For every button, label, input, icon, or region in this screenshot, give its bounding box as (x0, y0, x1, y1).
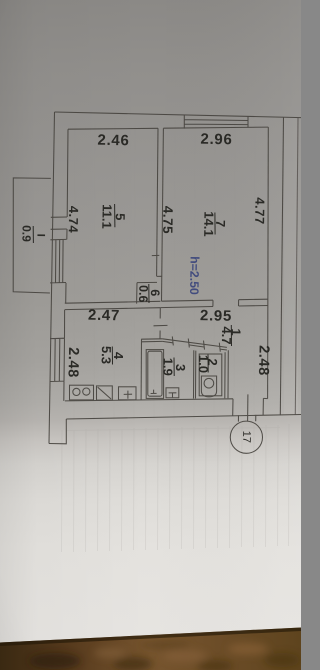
svg-text:2.47: 2.47 (88, 307, 120, 325)
leader line to apartment number (247, 394, 249, 421)
svg-text:4.75: 4.75 (160, 206, 175, 235)
window: room 7 top (184, 115, 248, 129)
bathtub drain (151, 390, 157, 394)
svg-text:1.0: 1.0 (196, 355, 211, 373)
slanted wall upper line (continuous) (162, 339, 227, 348)
kitchen washbasin (119, 387, 137, 400)
svg-text:2.48: 2.48 (65, 347, 82, 378)
svg-text:14.1: 14.1 (201, 211, 216, 237)
bar hall (230, 325, 232, 346)
entrance threshold stubs (238, 415, 255, 422)
fraction bars (33, 204, 231, 376)
svg-text:4.74: 4.74 (66, 206, 81, 234)
faint paper striping in plan area (74, 120, 255, 420)
apartment number circle (230, 421, 262, 453)
wall: bottom exterior (66, 415, 301, 420)
room 7 bottom / hall top wall (door opening x213-238.6) (160, 299, 268, 307)
kitchen right wall (140, 339, 142, 400)
svg-text:11.1: 11.1 (99, 204, 114, 229)
window: room 5 / balcony window (50, 239, 67, 283)
bathtub (146, 350, 163, 399)
kitchen left wall inner segments (63, 310, 66, 401)
bathroom/WC partition (194, 350, 196, 398)
bar room5 (114, 204, 116, 227)
wall: left exterior (49, 112, 55, 444)
kitchen stove (70, 385, 94, 400)
slant door jamb ticks (172, 336, 220, 351)
dimension tick room5 right wall (152, 254, 160, 256)
svg-text:2.46: 2.46 (97, 132, 129, 150)
room 5 top wall inner (68, 127, 158, 130)
wall: neighbour faint line right (295, 118, 298, 415)
kitchen sink (97, 386, 113, 400)
svg-text:4.77: 4.77 (252, 197, 267, 225)
slanted wall lower line with two door openings (162, 341, 227, 350)
bar closet (148, 284, 150, 303)
svg-text:0.9: 0.9 (19, 225, 33, 242)
svg-text:2.95: 2.95 (200, 307, 232, 325)
room 7 top wall inner (163, 127, 268, 128)
WC inner box (199, 354, 222, 396)
room 5 right wall (157, 128, 158, 276)
room 7 / hall right wall inner (267, 127, 270, 399)
svg-text:h=2.50: h=2.50 (187, 256, 202, 295)
svg-text:5.3: 5.3 (99, 346, 114, 364)
WC right wall (225, 350, 229, 398)
svg-text:0.6: 0.6 (136, 285, 150, 303)
room 5 bottom wall inner (65, 301, 161, 303)
window: kitchen (50, 338, 65, 381)
room 5 left wall inner (with balcony door break) (66, 129, 68, 303)
light band right of plan (284, 117, 298, 415)
door jambs hall/room7 (213, 300, 239, 307)
hall-left nook wall with kitchen door (159, 308, 161, 339)
bathroom top wall (horizontal part, double) (141, 339, 162, 342)
svg-text:17: 17 (240, 431, 252, 443)
wall: bottom-left notch (49, 419, 66, 444)
svg-text:2.96: 2.96 (200, 131, 232, 149)
wall between rooms 5 and 7 (room 7 side) (162, 128, 164, 301)
bar balcony (32, 226, 34, 243)
wall: building top exterior (55, 112, 302, 118)
closet 6 walls (137, 276, 163, 303)
bar bathroom (173, 358, 175, 377)
balcony door jamb caps (51, 217, 67, 229)
svg-text:I: I (34, 234, 46, 237)
bar room7 (214, 213, 216, 235)
svg-text:2.48: 2.48 (255, 345, 272, 376)
wall: right exterior (280, 117, 283, 415)
washbasin in bathroom (166, 388, 179, 398)
bar kitchen (111, 347, 113, 365)
kitchen door tick (154, 324, 168, 326)
bar wc (207, 355, 209, 373)
balcony (13, 178, 51, 293)
table at bottom (0, 628, 301, 670)
kitchen top wall line (65, 308, 160, 310)
main plan linework (13, 112, 301, 453)
bottom wall inner line (broken at entrance) (65, 398, 268, 401)
toilet (201, 376, 216, 397)
entrance door jambs (233, 398, 264, 415)
verso ruling stripes lower area (62, 424, 290, 552)
svg-text:1.9: 1.9 (160, 358, 175, 376)
